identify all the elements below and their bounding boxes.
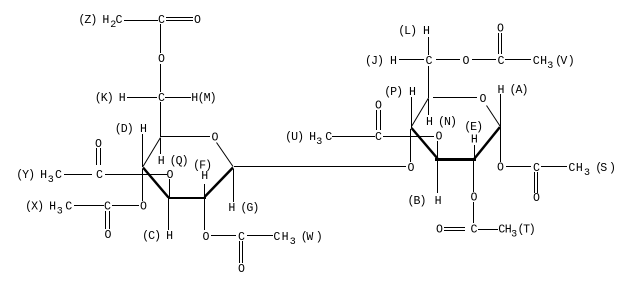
bond Ccarbonyl Y-Oester Y <box>105 174 167 175</box>
bond C1-H(G) <box>233 169 234 202</box>
double bond C=O W right line <box>242 241 243 263</box>
bond C4'-C5' right ring <box>412 98 429 127</box>
bond C5-H(Q) <box>160 138 161 154</box>
svg-text:O: O <box>533 192 540 205</box>
svg-text:H: H <box>576 162 583 175</box>
svg-text:(D): (D) <box>115 123 133 136</box>
svg-text:C: C <box>568 162 575 175</box>
svg-text:H (A): H (A) <box>498 84 528 97</box>
svg-text:(U) H: (U) H <box>285 131 316 144</box>
svg-text:O: O <box>203 231 210 244</box>
svg-text:O: O <box>463 55 470 68</box>
svg-text:H: H <box>282 231 289 244</box>
svg-text:V: V <box>560 55 567 68</box>
bond Oring-C1' right ring <box>487 106 501 127</box>
bond C6-C5 left ring <box>160 102 161 137</box>
svg-text:O: O <box>194 14 201 27</box>
svg-text:(C) H: (C) H <box>142 230 173 243</box>
bond Ccarbonyl V-CH3 V <box>505 59 531 60</box>
bond C5'-Oring right <box>433 97 477 98</box>
svg-text:3: 3 <box>48 175 54 186</box>
bond H(A)-C1' <box>500 94 501 127</box>
svg-text:): ) <box>609 162 616 175</box>
svg-text:3: 3 <box>511 229 517 240</box>
bond C6'-Oester V <box>436 59 460 60</box>
wedge C4-C3 left ring <box>143 168 169 198</box>
svg-text:C: C <box>498 55 505 68</box>
bond H3C-Ccarbonyl X <box>74 205 104 206</box>
svg-text:): ) <box>316 231 323 244</box>
double bond C=O V right line <box>501 33 502 54</box>
svg-text:C: C <box>65 201 72 214</box>
bond Oring-C1 left ring <box>217 143 234 167</box>
svg-text:C: C <box>273 231 280 244</box>
svg-text:S: S <box>600 162 607 175</box>
svg-text:): ) <box>568 55 575 68</box>
bond C5'-C6' <box>428 66 429 98</box>
svg-text:O: O <box>408 162 415 175</box>
wedge C2'-C1' right ring <box>475 127 501 159</box>
bond Ccarbonyl S-CH3 S <box>541 166 567 167</box>
bond H3C-Ccarbonyl U <box>332 136 375 137</box>
bond Oester S-Ccarbonyl S <box>506 166 531 167</box>
svg-text:3: 3 <box>584 168 590 179</box>
svg-text:H (N): H (N) <box>426 116 456 129</box>
double bond C=O W left line <box>239 241 240 263</box>
bond H(F)-C2 <box>204 184 205 197</box>
double bond C=O Z upper line <box>166 17 193 18</box>
svg-text:O: O <box>238 263 245 276</box>
svg-text:(J): (J) <box>365 55 383 68</box>
bond Ccarbonyl T-CH3 T <box>478 229 498 230</box>
double bond C=O Y left line <box>96 148 97 165</box>
svg-text:H: H <box>423 25 430 38</box>
double bond C=O S left line <box>534 172 535 193</box>
svg-text:H: H <box>471 134 478 147</box>
svg-text:H: H <box>435 195 442 208</box>
bond Oester Y-C3 <box>169 179 170 197</box>
double bond C=O S right line <box>537 172 538 193</box>
svg-text:(Z) H: (Z) H <box>78 14 109 27</box>
double bond C=O X right line <box>109 211 110 229</box>
bond H3C-Ccarbonyl Y <box>64 174 92 175</box>
svg-text:(E): (E) <box>464 121 482 134</box>
svg-text:(M): (M) <box>198 92 216 105</box>
bond Oester T-Ccarbonyl T <box>473 202 474 223</box>
svg-text:(X) H: (X) H <box>25 201 56 214</box>
double bond C=O X left line <box>105 211 106 229</box>
svg-text:C: C <box>116 14 123 27</box>
bond Ccarbonyl W-CH3 W <box>247 235 273 236</box>
bond C5'-H(N) <box>428 99 429 115</box>
svg-text:C: C <box>158 14 165 27</box>
double bond C=O V left line <box>498 33 499 54</box>
svg-text:O: O <box>480 93 487 106</box>
svg-text:(B): (B) <box>408 195 426 208</box>
bond C3'-H(B) <box>437 160 438 193</box>
bond H2C-Ccarbonyl Z <box>124 20 158 21</box>
svg-text:(P): (P) <box>384 86 402 99</box>
svg-text:C: C <box>96 169 103 182</box>
bond H(L)-C6' <box>428 37 429 55</box>
bond C4-Oester X <box>142 169 143 201</box>
bond H(D)-C4 <box>142 134 143 167</box>
bond C1'-Oester S <box>500 127 501 162</box>
bond H(K)-C6 <box>127 97 157 98</box>
svg-text:O: O <box>212 132 219 145</box>
svg-text:O: O <box>497 162 504 175</box>
svg-text:O: O <box>436 224 443 237</box>
svg-text:O: O <box>436 131 443 144</box>
svg-text:O: O <box>105 229 112 242</box>
svg-text:(K) H: (K) H <box>95 92 126 105</box>
svg-text:H: H <box>201 170 208 183</box>
bond C6-H(M) <box>165 97 191 98</box>
svg-text:W: W <box>306 231 313 244</box>
bond Oester U-C3' <box>437 141 438 159</box>
bond Ccarbonyl Z-Oester Z <box>160 24 161 53</box>
bond H(E)-C2' <box>474 145 475 159</box>
bond Oester Z-C6 <box>160 64 161 92</box>
bond H(J)-C6' <box>399 59 424 60</box>
svg-text:O: O <box>158 53 165 66</box>
bond C2-Oester W <box>204 199 205 230</box>
bond Oglycosidic-C4' <box>410 129 411 162</box>
bond Ccarbonyl X-Oester X <box>112 205 139 206</box>
svg-text:C: C <box>375 131 382 144</box>
svg-text:C: C <box>325 131 332 144</box>
svg-text:O: O <box>140 201 147 214</box>
bond Ccarbonyl U-Oester U <box>383 136 434 137</box>
bond C5-Oring left <box>161 136 210 137</box>
wedge C4'-C3' right ring <box>412 128 438 159</box>
double bond O=C T lower line <box>444 230 465 231</box>
double bond C=O U right line <box>380 110 381 130</box>
svg-text:3: 3 <box>290 237 296 248</box>
svg-text:H: H <box>409 86 416 99</box>
svg-text:C: C <box>158 92 165 105</box>
bond C2'-Oester T <box>473 160 474 192</box>
bond H(P)-C4' <box>411 97 412 128</box>
svg-text:): ) <box>529 224 536 237</box>
glycosidic bond C1-O bridge <box>234 166 406 167</box>
wedge C3'-C2' bottom right ring <box>435 158 476 161</box>
double bond O=C T upper line <box>444 227 465 228</box>
wedge C2-C1 left ring <box>205 168 234 198</box>
svg-text:C: C <box>55 169 62 182</box>
bond Oester V-Ccarbonyl V <box>472 59 496 60</box>
svg-text:3: 3 <box>57 206 63 217</box>
svg-text:3: 3 <box>547 61 553 72</box>
svg-text:(Y) H: (Y) H <box>16 169 47 182</box>
double bond C=O Z lower line <box>166 20 193 21</box>
bond C5-C4 left ring <box>143 138 161 167</box>
double bond C=O Y right line <box>100 148 101 165</box>
svg-text:3: 3 <box>316 137 322 148</box>
svg-text:C: C <box>471 224 478 237</box>
svg-text:(L): (L) <box>398 25 416 38</box>
svg-text:H (G): H (G) <box>228 202 258 215</box>
svg-text:C: C <box>533 55 540 68</box>
double bond C=O U left line <box>376 110 377 130</box>
svg-text:H: H <box>140 123 147 136</box>
svg-text:H: H <box>540 55 547 68</box>
bond Oester W-Ccarbonyl W <box>211 235 236 236</box>
svg-text:H: H <box>390 55 397 68</box>
bond C3-H(C) <box>168 199 169 230</box>
wedge C3-C2 bottom left ring <box>168 197 206 199</box>
svg-text:H (Q): H (Q) <box>158 155 188 168</box>
